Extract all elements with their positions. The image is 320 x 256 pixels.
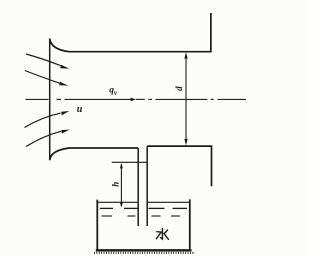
svg-text:d: d [174,86,184,91]
svg-text:h: h [111,182,121,187]
svg-text:u: u [77,104,83,115]
